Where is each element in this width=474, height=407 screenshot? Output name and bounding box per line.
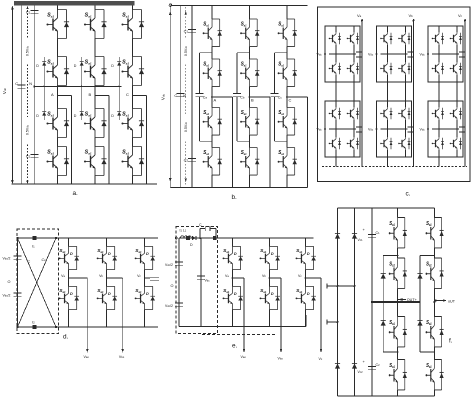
svg-text:C1: C1 (376, 231, 381, 235)
igbt S_a1 with antiparallel diode (46, 10, 69, 39)
cell c1 output stubs (459, 51, 465, 53)
output wire Vao (69, 277, 88, 279)
leg b collector wire to top bus (94, 6, 96, 10)
dc-link capacitor line (371, 208, 373, 396)
svg-text:Va: Va (357, 13, 362, 18)
capacitor C2 (188, 158, 196, 161)
clamp diode Db2 (80, 112, 84, 116)
svg-text:N: N (29, 82, 32, 86)
output node OUT+ (372, 301, 420, 303)
igbt S_c1 with antiparallel diode (278, 19, 297, 47)
output wire Vbo (e) (270, 277, 282, 279)
clamp diode Da1 (42, 62, 46, 66)
svg-text:b.: b. (232, 194, 238, 201)
cell c1 internal wires (438, 26, 440, 32)
inner DC line with source capacitor (179, 6, 181, 188)
svg-text:oUT: oUT (448, 300, 456, 304)
diode D (192, 236, 196, 240)
output wire Vbo (107, 277, 123, 279)
flying capacitor Cb (237, 52, 250, 54)
clamp diode Da2 (42, 112, 46, 116)
top rail (f) (338, 207, 435, 209)
cell c2 internal wires (438, 101, 440, 107)
capacitor Vdc/2 upper (14, 256, 22, 259)
leg a interconnect wires (57, 39, 59, 57)
igbt b1-q4 (398, 62, 410, 75)
leg 1 wires (f) (397, 208, 399, 218)
igbt S_b4 with antiparallel diode (240, 148, 259, 176)
clamp diode Db1 (80, 62, 84, 66)
clamp diode string leg 2 (420, 255, 434, 257)
svg-text:Vc: Vc (458, 13, 463, 18)
input terminal - (327, 321, 338, 323)
svg-text:Vdc/2: Vdc/2 (165, 304, 173, 308)
svg-text:C: C (289, 98, 292, 103)
svg-text:f.: f. (449, 338, 453, 345)
H-bridge cell c2 box (428, 101, 463, 157)
igbt b2-q4 (398, 137, 410, 150)
igbt c2-q4 (450, 137, 462, 150)
svg-text:I1: I1 (32, 245, 35, 249)
svg-text:Vc1: Vc1 (358, 238, 364, 242)
igbt S_b2 with antiparallel diode (240, 59, 259, 87)
clamp diode string leg 1 (383, 255, 397, 257)
igbt S_b2 with diode D_b2 (260, 286, 280, 309)
igbt S_a2 with antiparallel diode (46, 57, 69, 86)
svg-text:I1 L1: I1 L1 (180, 229, 187, 233)
inductor L1 (181, 236, 192, 238)
cell a2 output stubs (356, 126, 362, 128)
igbt c1-q1 (432, 32, 444, 45)
clamp wire leg c (118, 57, 120, 62)
svg-text:C2: C2 (376, 363, 381, 367)
dashed bottom extension (202, 334, 276, 336)
svg-text:Vbo: Vbo (278, 357, 284, 361)
igbt S_a1 with diode D_a1 (223, 246, 243, 269)
bottom DC rail (12, 183, 158, 185)
DC-link line (33, 6, 35, 185)
svg-text:Vao: Vao (84, 355, 90, 359)
svg-text:Vb: Vb (262, 274, 266, 278)
svg-text:D: D (111, 64, 114, 68)
leg c wire to top rail (286, 6, 288, 20)
igbt c2-q1 (432, 107, 444, 120)
igbt a1-q1 (329, 32, 341, 45)
cell c2 output stubs (459, 126, 465, 128)
svg-text:C2: C2 (26, 154, 31, 159)
leg 2 wires (f) (433, 208, 435, 218)
outer enclosure box (318, 7, 471, 182)
igbt S_b1 with antiparallel diode (240, 19, 259, 47)
H-bridge cell a1 box (325, 26, 360, 82)
svg-text:Vdc: Vdc (2, 87, 7, 94)
output node OUT- (434, 300, 445, 302)
cross connection X (18, 238, 57, 327)
DC-link line (191, 6, 193, 188)
input terminal + (327, 285, 355, 287)
svg-text:I2: I2 (32, 321, 35, 325)
igbt S_a2 with antiparallel diode (203, 59, 222, 87)
cell a2 internal wires (335, 101, 337, 107)
svg-text:A: A (214, 98, 217, 103)
svg-text:D: D (36, 114, 39, 118)
cascade wires column b (387, 82, 389, 101)
igbt S_a4 with antiparallel diode (46, 147, 69, 176)
igbt S_c1 with antiparallel diode (121, 10, 144, 39)
0.5Vdc dotted line (185, 7, 187, 186)
igbt a1-q2 (347, 32, 359, 45)
svg-text:O: O (171, 284, 174, 288)
svg-text:Vdc: Vdc (368, 53, 374, 57)
top DC rail (170, 5, 307, 7)
igbt c2-q2 (450, 107, 462, 120)
figure c: cascaded H-bridge inverter (317, 7, 471, 198)
leg b wires (106, 238, 108, 246)
igbt c1-q2 (450, 32, 462, 45)
leg a wires (68, 238, 70, 246)
svg-text:C2: C2 (184, 158, 189, 163)
leg b interconnect wires (249, 47, 251, 60)
igbt T14 with antiparallel diode (389, 360, 407, 390)
cascade wires column c (438, 82, 440, 101)
label 0.5Vdc lower (183, 114, 189, 140)
leg c interconnect wires (132, 39, 134, 57)
igbt a1-q3 (329, 62, 341, 75)
cascade wires column a (335, 82, 337, 101)
svg-text:D: D (190, 243, 193, 247)
svg-text:B: B (89, 92, 92, 97)
svg-text:0.5Vdc: 0.5Vdc (26, 45, 30, 56)
svg-text:Vdc: Vdc (420, 53, 426, 57)
bottom rail (179, 326, 306, 328)
igbt a2-q4 (347, 137, 359, 150)
igbt S_b2 with antiparallel diode (84, 57, 107, 86)
svg-text:0.5Vdc: 0.5Vdc (26, 124, 30, 135)
svg-text:C1: C1 (184, 29, 189, 34)
figure b: flying-capacitor 3-level inverter (160, 4, 307, 201)
inner dashed return bus (322, 166, 467, 168)
leg b interconnect wires (94, 39, 96, 57)
igbt S_c3 with antiparallel diode (278, 108, 297, 136)
leg a interconnect wires (211, 47, 213, 60)
igbt b2-q3 (380, 137, 392, 150)
igbt b2-q1 (380, 107, 392, 120)
bottom rail (f) (338, 395, 435, 397)
svg-text:a.: a. (73, 190, 79, 197)
svg-text:C: C (126, 92, 129, 97)
igbt c1-q4 (450, 62, 462, 75)
svg-text:Ca: Ca (203, 96, 208, 100)
H-bridge cell c1 box (428, 26, 463, 82)
svg-text:Vdc: Vdc (420, 128, 426, 132)
leg b wires (269, 238, 271, 246)
igbt S_c2 with diode D_c2 (135, 286, 155, 309)
igbt b1-q1 (380, 32, 392, 45)
igbt T13 with antiparallel diode (389, 317, 407, 347)
svg-text:C1: C1 (26, 10, 31, 15)
DC source line (21, 6, 23, 185)
H-bridge cell b2 box (377, 101, 412, 157)
clamp diode Dc1 (117, 62, 121, 66)
clamp diode Dc2 (117, 112, 121, 116)
igbt b1-q2 (398, 32, 410, 45)
igbt S_b3 with antiparallel diode (240, 108, 259, 136)
top rail (18, 237, 159, 239)
svg-text:c.: c. (406, 191, 411, 198)
cell a1 output stubs (356, 51, 362, 53)
svg-text:C: C (28, 260, 31, 264)
igbt S_c1 with diode D_c1 (296, 246, 316, 269)
igbt a2-q2 (347, 107, 359, 120)
igbt S_b4 with antiparallel diode (84, 147, 107, 176)
svg-text:Vb: Vb (409, 13, 414, 18)
bottom DC rail (170, 187, 307, 189)
capacitor Vdc/2 upper (175, 262, 183, 265)
cell a1 internal wires (335, 26, 337, 32)
left DC bus / Vdc arrow line (169, 7, 171, 188)
H-bridge cell b1 box (377, 26, 412, 82)
terminal circle at dashed box edge (175, 237, 177, 239)
svg-text:Vdc: Vdc (317, 53, 323, 57)
svg-text:0.5Vdc: 0.5Vdc (184, 121, 188, 132)
igbt T21 with antiparallel diode (426, 218, 444, 248)
igbt S_a1 with antiparallel diode (203, 19, 222, 47)
svg-text:D: D (36, 64, 39, 68)
svg-text:Vdc/2: Vdc/2 (3, 257, 11, 261)
igbt S_c4 with antiparallel diode (121, 147, 144, 176)
top rail (179, 237, 314, 239)
0.5Vdc dotted measure line (27, 7, 29, 183)
capacitor C (source) (18, 85, 26, 88)
label 0.5Vdc lower (25, 117, 31, 143)
igbt S_c1 with diode D_c1 (135, 246, 155, 269)
Vdc measuring line with arrows (11, 7, 13, 183)
igbt T12 with antiparallel diode (389, 258, 407, 288)
capacitor C2 (f) (368, 366, 376, 369)
igbt S_a3 with antiparallel diode (46, 109, 69, 138)
igbt a1-q4 (347, 62, 359, 75)
svg-text:Vb: Vb (99, 274, 103, 278)
clamp wire leg b (81, 57, 83, 62)
dashed box around input stage (17, 229, 59, 334)
leg c wires (305, 238, 307, 246)
cell b2 internal wires (387, 101, 389, 107)
igbt a2-q1 (329, 107, 341, 120)
capacitor C1 (f) (368, 234, 376, 237)
left rail (178, 238, 180, 327)
igbt T23 with antiparallel diode (426, 317, 444, 347)
svg-text:Vdc/2: Vdc/2 (3, 294, 11, 298)
igbt b2-q2 (398, 107, 410, 120)
igbt S_c2 with diode D_c2 (296, 286, 316, 309)
igbt b1-q3 (380, 62, 392, 75)
igbt S_a4 with antiparallel diode (203, 148, 222, 176)
clamp wire leg a (43, 57, 45, 62)
svg-text:Vdc: Vdc (205, 279, 211, 283)
svg-text:Vbo: Vbo (119, 355, 125, 359)
left diode string 1 (337, 208, 339, 396)
igbt S_a2 with diode D_a2 (223, 286, 243, 309)
igbt a2-q3 (329, 137, 341, 150)
igbt S_c2 with antiparallel diode (278, 59, 297, 87)
figure f: five-level active NPC phase leg (327, 208, 456, 396)
switch I1 (33, 236, 37, 240)
igbt T24 with antiparallel diode (426, 360, 444, 390)
igbt S_b1 with diode D_b1 (97, 246, 117, 269)
capacitor C2 (30, 154, 38, 157)
svg-text:Vdc: Vdc (160, 93, 165, 100)
figure a: diode-clamped 3-level inverter (2, 1, 157, 197)
top DC bus bar (thick) (14, 1, 134, 6)
svg-text:C: C (174, 93, 177, 98)
leg c collector wire to top bus (132, 6, 134, 10)
igbt S_c3 with antiparallel diode (121, 109, 144, 138)
igbt S_b1 with diode D_b1 (260, 246, 280, 269)
leg c interconnect wires (286, 47, 288, 60)
igbt S_b3 with antiparallel diode (84, 109, 107, 138)
figure e: Z/boost front-end three-level inverter (165, 223, 323, 361)
svg-text:O: O (8, 280, 11, 284)
dc-link line with capacitor (200, 238, 202, 327)
leg a collector wire to top bus (57, 6, 59, 10)
capacitor C1 (188, 29, 196, 32)
igbt S_a3 with antiparallel diode (203, 108, 222, 136)
igbt c2-q3 (432, 137, 444, 150)
svg-text:D: D (74, 64, 77, 68)
output wire Vco (e) (306, 277, 322, 279)
svg-text:C: C (199, 223, 202, 227)
left DC line (17, 238, 19, 327)
H-bridge cell a2 box (325, 101, 360, 157)
output wire Vao (e) (233, 277, 245, 279)
igbt S_a1 with diode D_a1 (59, 246, 79, 269)
charge loop with capacitor C (199, 237, 201, 239)
label 0.5Vdc upper (25, 38, 31, 64)
svg-text:Vdc: Vdc (317, 128, 323, 132)
cell b1 internal wires (387, 26, 389, 32)
svg-text:0.5Vdc: 0.5Vdc (184, 45, 188, 56)
svg-text:Cb: Cb (240, 96, 245, 100)
igbt S_c2 with antiparallel diode (121, 57, 144, 86)
svg-text:Vc2: Vc2 (358, 370, 364, 374)
figure d: three-level inverter with cross-connected source (3, 229, 160, 359)
left diode string 2 (354, 208, 356, 396)
igbt T11 with antiparallel diode (389, 218, 407, 248)
svg-text:OUT+: OUT+ (407, 298, 417, 302)
leg b wire to top rail (249, 6, 251, 20)
leg c wires (144, 238, 146, 246)
svg-text:d.: d. (63, 334, 69, 341)
svg-text:e.: e. (232, 343, 238, 350)
igbt S_b1 with antiparallel diode (84, 10, 107, 39)
svg-text:Vao: Vao (241, 355, 247, 359)
svg-text:A: A (51, 92, 54, 97)
svg-text:Va: Va (61, 274, 65, 278)
switch blob on input (186, 236, 190, 240)
capacitor C1 (30, 10, 38, 13)
dashed box around front-end (176, 227, 218, 334)
label 0.5Vdc upper (183, 38, 189, 64)
svg-text:D: D (74, 114, 77, 118)
igbt S_b2 with diode D_b2 (97, 286, 117, 309)
switch blob 2 (213, 236, 217, 240)
bottom rail (18, 326, 159, 328)
svg-text:C1: C1 (42, 258, 47, 262)
cell b2 output stubs (408, 126, 414, 128)
flying capacitor Ca (200, 52, 213, 54)
capacitor Vdc/2 lower (14, 293, 22, 296)
source capacitor C (176, 93, 184, 96)
svg-text:Vdc/2: Vdc/2 (165, 263, 173, 267)
capacitor Vdc/2 lower (175, 303, 183, 306)
svg-text:B: B (251, 98, 254, 103)
svg-text:D: D (111, 114, 114, 118)
cell b1 output stubs (408, 51, 414, 53)
svg-text:C: C (15, 81, 18, 86)
leg a wire to top rail (211, 6, 213, 20)
flying capacitor Cc (275, 52, 288, 54)
igbt S_a2 with diode D_a2 (59, 286, 79, 309)
igbt T22 with antiparallel diode (426, 258, 444, 288)
leg a wires (232, 238, 234, 246)
svg-text:Va: Va (225, 274, 229, 278)
igbt S_c4 with antiparallel diode (278, 148, 297, 176)
svg-text:Cc: Cc (278, 96, 283, 100)
svg-text:Vdc: Vdc (368, 128, 374, 132)
output capacitor phase c (145, 277, 150, 279)
igbt c1-q3 (432, 62, 444, 75)
switch I2 (33, 325, 37, 329)
